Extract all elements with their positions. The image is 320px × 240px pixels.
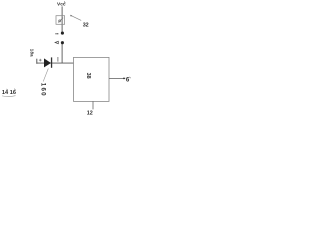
svg-text:38: 38 <box>85 73 91 79</box>
svg-text:18a: 18a <box>30 49 35 57</box>
svg-text:14: 14 <box>2 90 9 96</box>
svg-text:160: 160 <box>39 83 46 97</box>
svg-text:16: 16 <box>10 90 16 96</box>
svg-text:12: 12 <box>87 111 93 117</box>
svg-text:32: 32 <box>83 22 89 28</box>
svg-text:6: 6 <box>126 77 130 84</box>
